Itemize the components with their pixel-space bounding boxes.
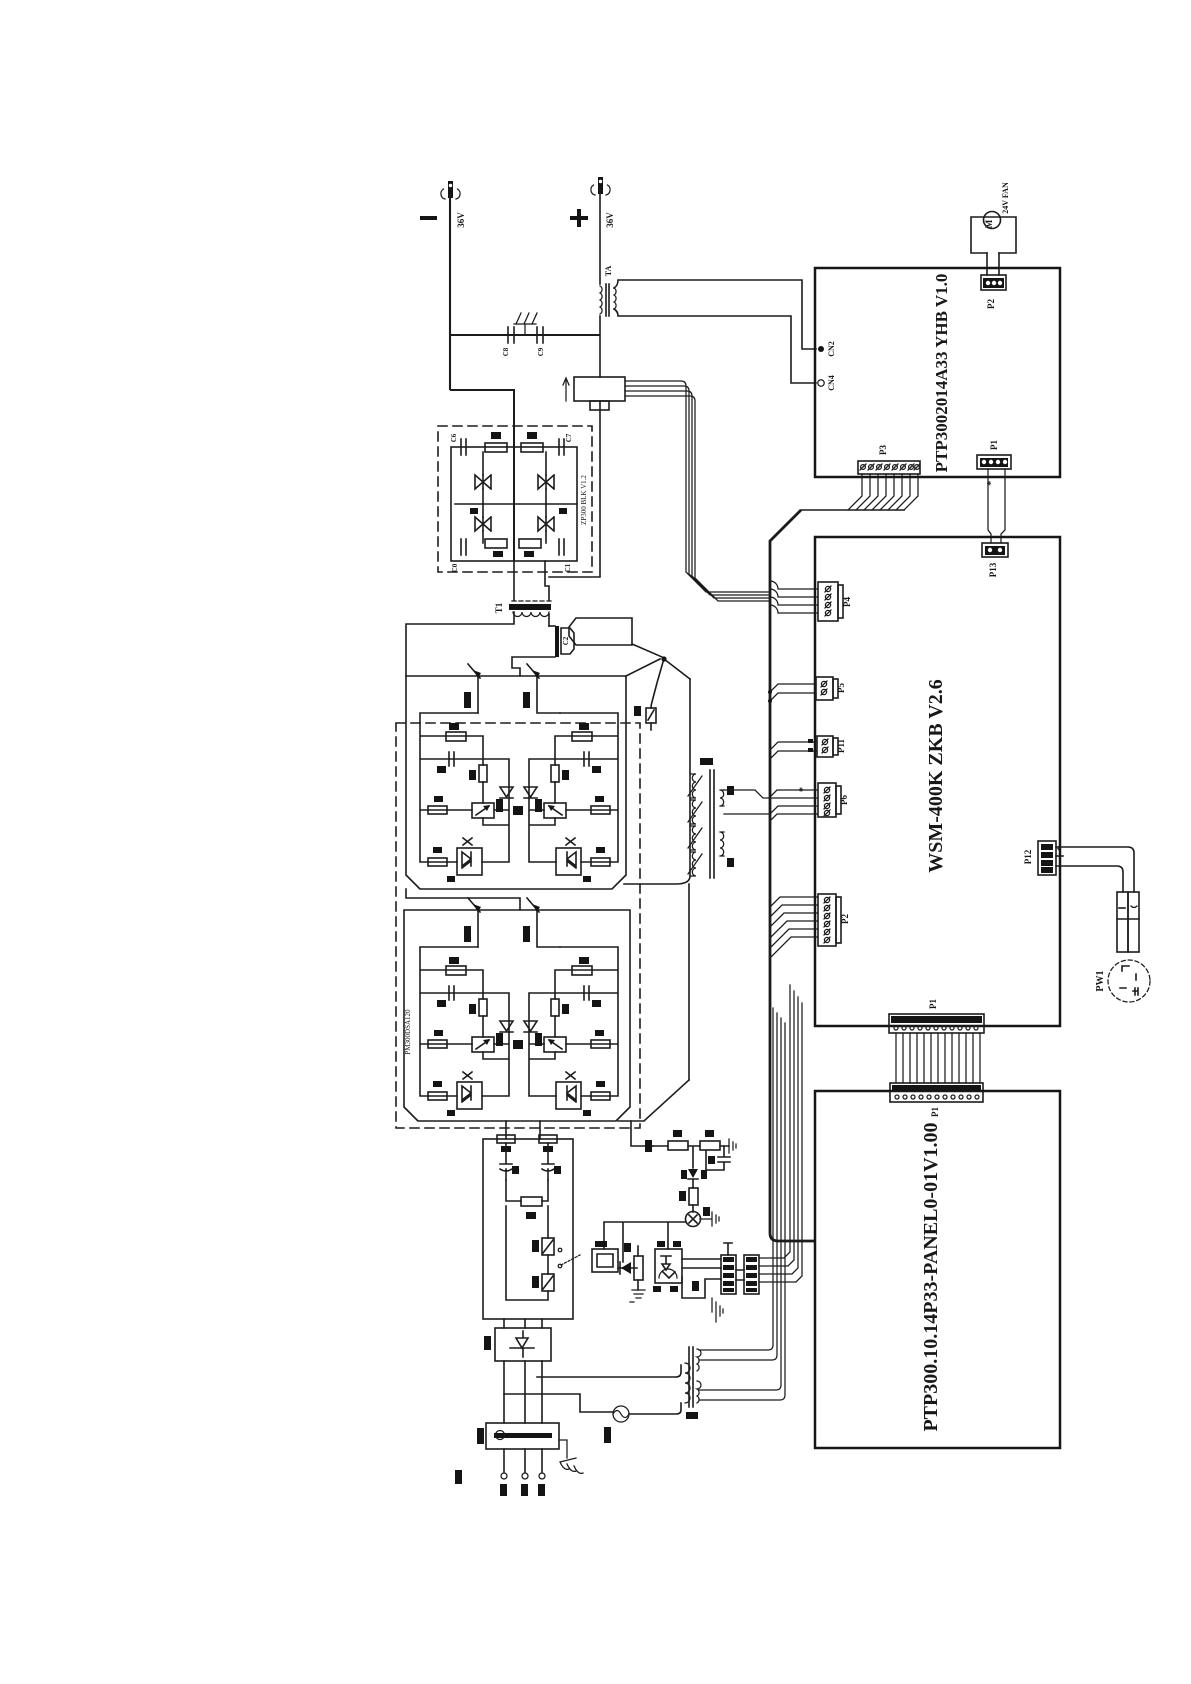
- current transformer TA1: [600, 266, 616, 316]
- wires T2 secondary risers: [699, 1008, 785, 1400]
- connector P12: [1023, 841, 1067, 875]
- transistor Q3A: [464, 898, 481, 947]
- wires rectifier to T1: [514, 561, 549, 600]
- wire OUT+ continues: [549, 316, 600, 577]
- svg-text:ZP300 BLK V1.2: ZP300 BLK V1.2: [580, 475, 588, 525]
- ground center: [712, 1298, 723, 1322]
- svg-text:P11: P11: [836, 739, 846, 754]
- wire snubber cap link: [450, 334, 600, 336]
- svg-text:T1: T1: [494, 602, 504, 613]
- wire OUT- jog into rectifier center: [450, 390, 514, 561]
- svg-text:C0: C0: [451, 563, 459, 572]
- socket PW1 (dashed circle): [1095, 960, 1150, 1002]
- node CN2: [818, 341, 836, 357]
- relay CB1: [592, 1241, 618, 1272]
- IGBT section dashed box: [396, 723, 640, 1128]
- svg-text:P5: P5: [836, 683, 846, 693]
- label plus sign: [570, 209, 588, 227]
- module 2 right half-bridge cell (mirrored): [529, 947, 618, 1116]
- svg-text:PM300DSA120: PM300DSA120: [404, 1009, 412, 1055]
- switch contact: [506, 1206, 580, 1300]
- svg-text:CN4: CN4: [827, 375, 836, 391]
- ground Q4: [700, 1212, 719, 1226]
- wires filter to bridge: [504, 1319, 542, 1328]
- svg-text:36V: 36V: [605, 212, 615, 228]
- ribbon connector P1 (board C side): [890, 1083, 983, 1117]
- wire to fuse and T2: [537, 1365, 681, 1377]
- wire rectifier verticals: [483, 452, 546, 543]
- IGBT module 1 outline: [406, 676, 626, 889]
- svg-text:24V FAN: 24V FAN: [1001, 182, 1010, 214]
- diode pair D4: [500, 1021, 513, 1032]
- wire long vertical aux: [688, 884, 690, 1080]
- svg-text:P2: P2: [840, 914, 850, 924]
- rectifier inner outline: [451, 447, 577, 561]
- wire fuse to T2: [629, 1403, 681, 1414]
- resistor R14: [539, 1135, 557, 1152]
- snubber block: [569, 618, 632, 645]
- thermistor PTC1: [532, 1206, 554, 1255]
- svg-text:P6: P6: [839, 795, 849, 805]
- optocoupler U2: [653, 1241, 682, 1292]
- svg-text:P12: P12: [1023, 849, 1033, 864]
- wire CT to CN4: [614, 309, 816, 383]
- wire CT to CN2: [614, 280, 816, 349]
- transformer T1: [494, 601, 552, 617]
- resistor R15: [679, 1188, 698, 1205]
- svg-text:P3: P3: [878, 445, 888, 455]
- labels R6 R7: [673, 1130, 714, 1137]
- svg-text:P1: P1: [930, 1107, 940, 1117]
- transistor Q3B: [523, 898, 560, 947]
- connector P1 (board A): [977, 440, 1011, 486]
- wire T1 to center tap: [512, 657, 555, 676]
- wires P12 to plug: [1056, 847, 1134, 892]
- output terminal OUT+: [591, 177, 610, 195]
- wires module2 to filter: [506, 1121, 540, 1139]
- svg-text:C7: C7: [565, 433, 573, 442]
- wire T1 secondary to module1: [406, 612, 514, 676]
- wire control rail: [604, 1222, 686, 1262]
- svg-text:*: *: [798, 787, 809, 792]
- label blob: [692, 1281, 699, 1291]
- connector P6: [818, 783, 849, 817]
- wire between modules: [406, 889, 520, 910]
- capacitor C1: [542, 1143, 561, 1180]
- wire bundle hall sensor to P4: [625, 381, 770, 601]
- module 1 left half-bridge cell: [420, 713, 509, 882]
- wire T3 primary rail: [624, 679, 690, 884]
- transistor Q2B: [523, 664, 560, 713]
- capacitor C9: [537, 327, 545, 356]
- svg-text:C1: C1: [564, 563, 572, 572]
- wire bus fan to P4: [770, 581, 818, 613]
- wire module2 to R network: [631, 1121, 653, 1146]
- wire junction to T3 feed: [664, 659, 690, 679]
- diode pair D9: [538, 508, 567, 531]
- svg-text:P2: P2: [986, 299, 996, 309]
- wires fan to P2: [987, 253, 999, 275]
- terminal block PWR1: [477, 1423, 559, 1449]
- svg-text:CN2: CN2: [827, 341, 836, 357]
- ground R16: [630, 1290, 645, 1302]
- svg-text:M: M: [984, 219, 994, 228]
- resistor R8: [485, 432, 507, 452]
- thermistor PTC2: [532, 1255, 554, 1291]
- resistor R7: [700, 1141, 720, 1150]
- svg-text:P1: P1: [989, 440, 999, 450]
- capacitor C12: [706, 1146, 730, 1170]
- svg-text:PTP300.10.14P33-PANEL0-01V1.00: PTP300.10.14P33-PANEL0-01V1.00: [920, 1122, 942, 1431]
- wire module1 collector diagonal: [626, 659, 660, 676]
- main bus trunk: [770, 510, 815, 1241]
- wire bus to P11: [770, 739, 817, 759]
- connector P2: [981, 275, 1006, 309]
- board PANEL outline: [815, 1091, 1060, 1448]
- wire R network: [653, 1146, 729, 1168]
- node junction: [661, 656, 666, 661]
- svg-text:WSM-400K ZKB V2.6: WSM-400K ZKB V2.6: [925, 679, 947, 873]
- IGBT module 2 outline: [404, 910, 630, 1121]
- wire bus to P6: [724, 787, 818, 821]
- connector J1 (hatched): [721, 1243, 736, 1294]
- label R5: [645, 1140, 652, 1152]
- zener diode Z1: [681, 1169, 707, 1188]
- chassis ground: [514, 313, 537, 335]
- resistor R6: [668, 1141, 688, 1150]
- resistor R10: [485, 539, 507, 557]
- wire OUT+ vertical: [599, 189, 601, 284]
- capacitor C5: [500, 1143, 519, 1180]
- capacitor C8: [502, 327, 514, 356]
- connector P3 (board B): [818, 894, 850, 946]
- diode pair D3: [513, 787, 537, 815]
- svg-text:C6: C6: [450, 433, 458, 442]
- resistor R13: [497, 1135, 515, 1152]
- svg-text:PTP3002014A33 YHB V1.0: PTP3002014A33 YHB V1.0: [932, 274, 951, 473]
- resistor R9: [521, 432, 543, 452]
- capacitor C11: [559, 539, 572, 572]
- resistor R16: [624, 1243, 643, 1290]
- svg-text:P1: P1: [928, 999, 938, 1009]
- wire T1 right end down: [548, 614, 550, 626]
- ribbon connector P1 (board B side): [889, 999, 984, 1033]
- module 1 right half-bridge cell (mirrored): [529, 713, 618, 882]
- diode pair D6: [475, 475, 491, 489]
- diode pair D7: [538, 475, 554, 489]
- EMI filter box: [483, 1139, 573, 1319]
- connector P3 (board A): [858, 445, 920, 474]
- wires bridge to terminal: [504, 1361, 542, 1423]
- svg-text:*: *: [1055, 845, 1067, 851]
- connector J2 (hatched): [744, 1255, 759, 1294]
- svg-text:C2: C2: [562, 636, 570, 645]
- output rectifier module (dashed outline): [438, 426, 592, 572]
- svg-text:P13: P13: [988, 562, 998, 577]
- diode pair D2: [500, 787, 513, 798]
- transistor Q4: [686, 1205, 711, 1227]
- wire snubber block output diagonal: [632, 644, 662, 657]
- connector P5: [816, 677, 846, 700]
- plug XS1: [1117, 892, 1139, 952]
- wire OUT- vertical: [449, 193, 451, 390]
- bridge rectifier BR1: [484, 1328, 551, 1361]
- varistor RV2: [634, 662, 663, 730]
- wires P1 to P13: [988, 469, 1005, 543]
- gate transformer T3: [688, 758, 734, 878]
- board WSM-400K outline: [815, 537, 1060, 1026]
- output terminal OUT-: [441, 181, 460, 199]
- hall sensor HCT: [563, 377, 625, 410]
- svg-text:C9: C9: [537, 347, 545, 356]
- wire bus to P5: [768, 684, 816, 703]
- connector P4: [818, 582, 852, 621]
- transistor Q2A: [464, 664, 481, 713]
- wires J2 to bus risers: [759, 985, 802, 1282]
- connector P13: [982, 543, 1008, 577]
- input leads: [455, 1449, 545, 1496]
- wires J1 J2 link: [736, 1270, 744, 1280]
- connector P11: [817, 736, 846, 757]
- capacitor C2 snubber: [549, 626, 574, 657]
- resistor R11: [519, 539, 541, 557]
- resistor RV1: [506, 1180, 548, 1219]
- transformer T2: [685, 1347, 701, 1419]
- rectifier mid rail: [455, 503, 577, 505]
- board PTP3002014A33 outline: [815, 268, 1060, 477]
- fuse FU1: [604, 1406, 629, 1443]
- wires opto to connectors: [682, 1259, 721, 1298]
- capacitor C6: [450, 433, 466, 455]
- wire bus comb to P2: [770, 897, 818, 958]
- ribbon wires: [896, 1033, 980, 1083]
- diode D10: [618, 1262, 637, 1274]
- svg-text:*: *: [985, 480, 997, 486]
- svg-text:36V: 36V: [456, 212, 466, 228]
- svg-text:PW1: PW1: [1095, 970, 1106, 991]
- capacitor C7: [559, 433, 573, 455]
- wires board A P3 merge into bus: [801, 474, 918, 510]
- svg-text:C8: C8: [502, 347, 510, 356]
- svg-text:TA: TA: [604, 266, 613, 277]
- fan motor M1: [971, 182, 1016, 253]
- module 2 left half-bridge cell: [420, 947, 509, 1116]
- diode pair D8: [470, 508, 491, 531]
- label minus sign: [420, 216, 437, 220]
- wire diagonal module2 to aux vertical: [618, 1080, 689, 1121]
- node CN4: [818, 375, 836, 391]
- earth ground: [559, 1440, 583, 1473]
- capacitor C10: [451, 539, 466, 572]
- ground right: [729, 1139, 736, 1153]
- svg-text:P4: P4: [842, 597, 852, 607]
- diode pair D5: [513, 1021, 537, 1049]
